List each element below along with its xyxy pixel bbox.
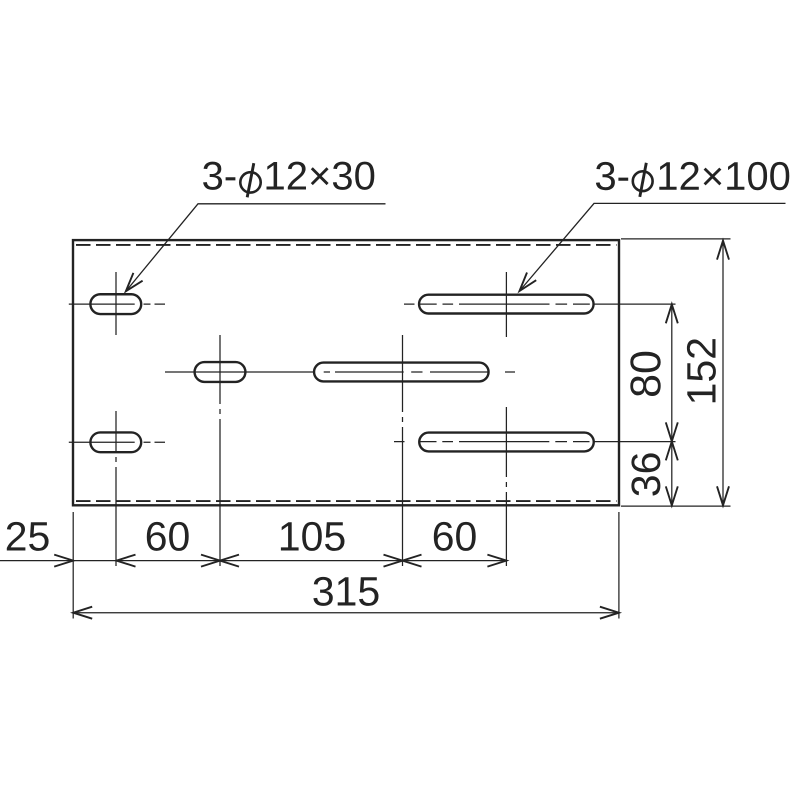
vertical centerline middle-small slot extended to dimension line [219, 335, 221, 566]
horizontal centerline top-right slot extended past plate edge [404, 303, 676, 305]
slot middle-long 12x100 [314, 363, 489, 382]
dimension line 152 [722, 241, 724, 506]
arrow 152 bottom [717, 486, 729, 505]
plate outline [73, 240, 619, 505]
arrow at 105 left pointing left [220, 555, 239, 567]
label 3-phi12x30 [203, 162, 374, 198]
dimension text 25 [7, 522, 49, 551]
arrow at 25 right pointing right [54, 555, 73, 567]
dimension line 36 [671, 441, 673, 505]
arrow 36 bottom [666, 486, 678, 505]
slot top-left 12x30 [90, 294, 141, 314]
arrow 80 top [666, 304, 678, 323]
vertical centerline top-left slot [115, 272, 117, 335]
leader line for 3-phi12x100 label [520, 203, 786, 291]
slot top-right 12x100 [419, 295, 594, 314]
horizontal centerline bottom-left slot [69, 441, 165, 443]
label 3-phi12x100 [596, 162, 789, 197]
arrow at 60 right pointing right [201, 555, 220, 567]
vertical centerline bottom-left slot extended to dimension line [115, 411, 117, 566]
dimension line 315 [73, 612, 619, 614]
dimension text 315 [313, 577, 378, 606]
horizontal centerline bottom-right slot extended past plate edge [394, 441, 676, 443]
slot bottom-right 12x100 [419, 433, 594, 452]
vertical centerline middle-long slot extended to dimension line [402, 335, 404, 566]
slot bottom-left 12x30 [90, 432, 141, 452]
arrow at 105 right pointing right [384, 555, 403, 567]
arrow 152 top [717, 241, 729, 260]
dimension text 152 rotated [687, 339, 716, 402]
arrow 315 right [600, 607, 619, 619]
dimension text second 60 [434, 522, 476, 551]
extension line right plate edge below [618, 512, 620, 619]
leader arrowhead 3-phi12x30 [126, 273, 143, 291]
dimension text 80 rotated [630, 352, 660, 396]
arrow at 60 left pointing left [117, 555, 136, 567]
extension line plate bottom right [621, 505, 731, 507]
arrow 315 left [73, 607, 92, 619]
arrow at second 60 left pointing left [403, 555, 422, 567]
phi symbol long slots [633, 171, 653, 191]
arrow at second 60 right pointing right [487, 555, 506, 567]
dimension line row 25/60/105/60 [0, 560, 506, 562]
dimension text 60 [147, 522, 189, 551]
arrow 36 top [666, 441, 678, 460]
vertical centerline bottom-right slot extended to dimension line [505, 407, 507, 566]
extension line plate top right [621, 238, 731, 240]
top hidden/bend dashed line [76, 244, 617, 246]
dimension line 80 [671, 304, 673, 441]
arrow 80 bottom [666, 422, 678, 441]
leader line for 3-phi12x30 label [126, 204, 386, 291]
vertical centerline top-right slot [505, 272, 507, 337]
phi symbol small slots [240, 172, 260, 192]
dimension text 36 rotated [631, 453, 660, 495]
horizontal centerline middle slots [165, 371, 515, 373]
extension line left plate edge below [72, 512, 74, 619]
dimension text 105 [281, 522, 345, 551]
horizontal centerline top-left slot [69, 303, 165, 305]
slot middle-small 12x30 [195, 362, 246, 382]
leader arrowhead 3-phi12x100 [520, 273, 537, 292]
bottom hidden/bend dashed line [76, 500, 617, 502]
